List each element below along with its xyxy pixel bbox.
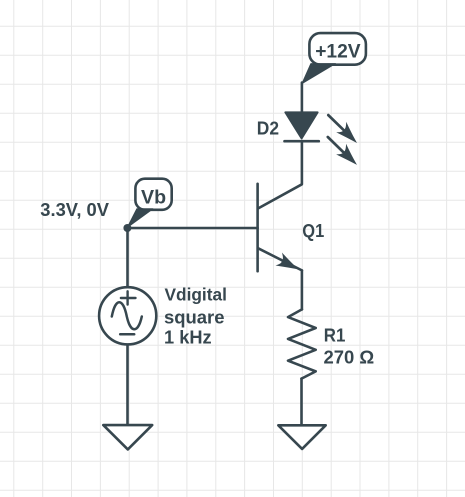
resistor R1 zigzag: [288, 309, 316, 378]
svg-text:+12V: +12V: [315, 41, 361, 63]
LED D2 cathode bar: [285, 140, 319, 143]
LED light arrow 2: [328, 137, 363, 170]
wire: emitter down to resistor: [301, 270, 304, 309]
wire: +12V rail down to LED: [301, 83, 304, 114]
wire: LED cathode down to transistor collector bend, diagonal to base bar: [258, 141, 302, 208]
svg-text:R1: R1: [324, 325, 346, 346]
source plus sign: [121, 291, 136, 304]
svg-text:D2: D2: [257, 118, 279, 139]
transistor Q1 emitter diagonal: [258, 248, 302, 270]
wire: junction down to source: [126, 228, 129, 287]
LED D2 triangle: [285, 112, 317, 138]
wire: source bottom to left ground: [126, 344, 129, 425]
junction node dot: [123, 224, 131, 232]
source sine wave: [112, 302, 142, 329]
source minus sign: [120, 333, 134, 336]
svg-text:270 Ω: 270 Ω: [324, 346, 375, 367]
source V1 circle: [99, 287, 156, 344]
Vb callout tail: [127, 209, 153, 228]
LED light arrow 1: [328, 115, 362, 148]
wire: base wire from junction to base bar: [128, 227, 258, 230]
svg-text:Vb: Vb: [141, 187, 166, 209]
Vb callout box: [135, 179, 171, 210]
transistor Q1 emitter arrowhead: [275, 252, 302, 275]
svg-text:3.3V, 0V: 3.3V, 0V: [40, 199, 109, 220]
svg-text:1 kHz: 1 kHz: [164, 328, 212, 348]
+12V callout box: [309, 33, 366, 65]
wire: resistor to right ground: [300, 379, 303, 426]
svg-text:Q1: Q1: [302, 221, 324, 241]
+12V callout tail: [302, 64, 336, 84]
left ground: [103, 425, 152, 449]
svg-text:Vdigital: Vdigital: [165, 285, 227, 305]
svg-text:square: square: [164, 307, 225, 328]
transistor Q1 base bar: [256, 184, 259, 271]
right ground: [278, 425, 325, 449]
